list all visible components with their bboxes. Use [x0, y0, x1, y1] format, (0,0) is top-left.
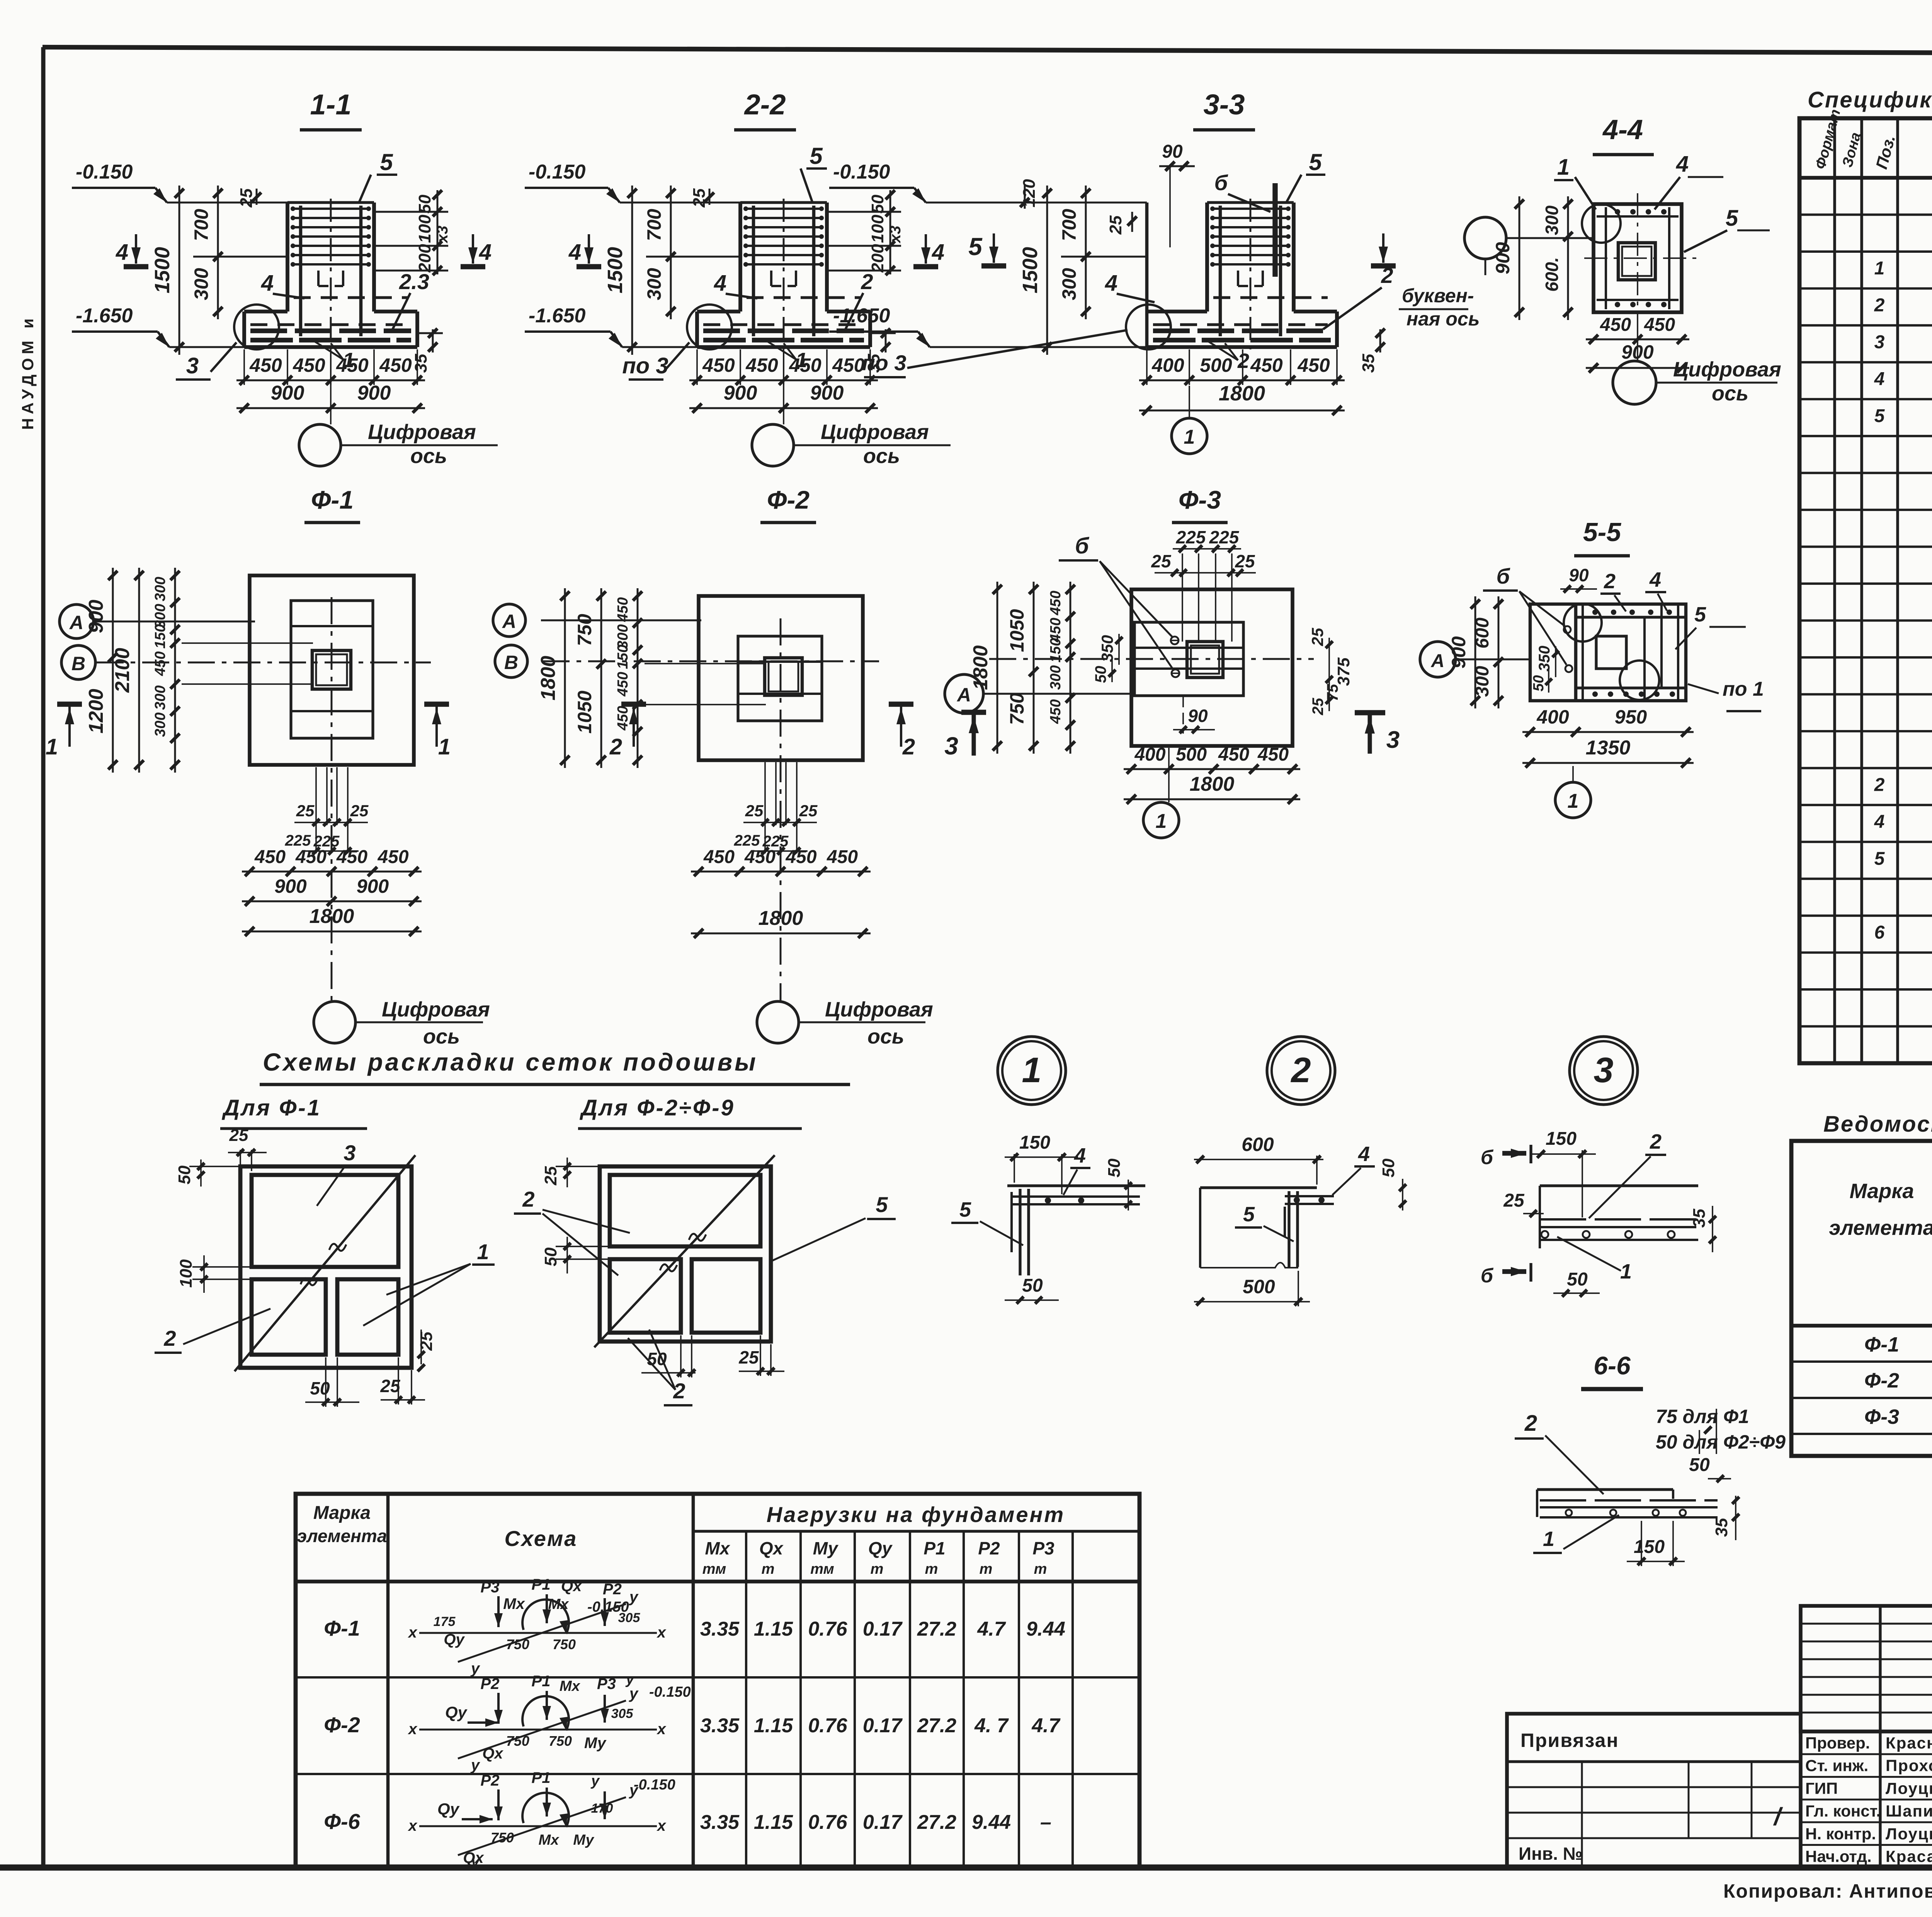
svg-text:450: 450 — [379, 354, 412, 376]
section 1-1 footing outline — [244, 310, 287, 313]
svg-text:Р1: Р1 — [532, 1769, 551, 1786]
svg-text:27.2: 27.2 — [917, 1714, 956, 1737]
svg-text:А: А — [956, 684, 971, 706]
svg-text:1: 1 — [1620, 1260, 1632, 1283]
plan F-3 cut mark 3 right — [1355, 710, 1385, 715]
plan F-1 cut marks 1-1 — [57, 701, 82, 707]
svg-text:4: 4 — [1105, 271, 1117, 296]
mesh scheme 1 (for F-1) — [240, 1166, 412, 1368]
svg-text:Qх: Qх — [482, 1745, 503, 1762]
svg-text:450: 450 — [1257, 744, 1289, 765]
svg-text:Провер.: Провер. — [1805, 1734, 1870, 1752]
plan Ф-3 pedestal step — [1134, 622, 1243, 696]
svg-text:Цифровая: Цифровая — [821, 421, 929, 444]
plan F-2 axis circle A — [493, 604, 526, 637]
plan F-2 chain 1800 — [691, 933, 871, 935]
plan F-1 axes — [97, 662, 431, 664]
svg-text:305: 305 — [618, 1611, 641, 1625]
svg-text:Цифровая: Цифровая — [825, 998, 933, 1021]
svg-text:1500: 1500 — [1019, 247, 1042, 293]
svg-text:900: 900 — [271, 382, 304, 404]
svg-text:900: 900 — [724, 382, 757, 404]
svg-text:3: 3 — [344, 1141, 355, 1165]
svg-text:50: 50 — [1567, 1269, 1588, 1290]
svg-text:Р1: Р1 — [532, 1576, 551, 1593]
svg-text:4: 4 — [261, 271, 274, 296]
svg-text:5: 5 — [876, 1192, 888, 1217]
mesh 2 panel bottom-right — [692, 1259, 760, 1333]
svg-text:750: 750 — [549, 1733, 572, 1749]
svg-text:Р3: Р3 — [481, 1579, 500, 1596]
svg-text:Цифровая: Цифровая — [1673, 358, 1781, 381]
svg-text:25: 25 — [350, 802, 369, 820]
svg-text:50 для Ф2÷Ф9: 50 для Ф2÷Ф9 — [1656, 1431, 1786, 1453]
svg-text:х: х — [656, 1817, 667, 1834]
svg-text:300: 300 — [643, 268, 665, 300]
svg-text:2: 2 — [609, 734, 622, 759]
section 3-3 dashed bar 4 — [1213, 296, 1328, 299]
svg-text:50: 50 — [647, 1349, 667, 1369]
svg-text:В: В — [504, 652, 518, 673]
svg-text:3-3: 3-3 — [1204, 89, 1245, 121]
svg-text:4: 4 — [568, 240, 581, 265]
svg-text:Лоуцкер: Лоуцкер — [1886, 1779, 1932, 1797]
svg-text:–: – — [1040, 1811, 1051, 1834]
svg-text:1: 1 — [438, 734, 451, 759]
svg-text:у: у — [629, 1588, 639, 1605]
svg-text:5: 5 — [1874, 848, 1885, 869]
svg-text:1: 1 — [46, 734, 58, 759]
svg-text:Нагрузки на фундамент: Нагрузки на фундамент — [767, 1502, 1065, 1527]
detail node circle 1 — [998, 1037, 1066, 1105]
section 2-2 dim 35 — [885, 329, 887, 352]
svg-text:5: 5 — [959, 1198, 971, 1221]
svg-text:х: х — [656, 1721, 667, 1738]
svg-text:Для Ф-2÷Ф-9: Для Ф-2÷Ф-9 — [579, 1095, 735, 1120]
svg-text:Р1: Р1 — [923, 1538, 945, 1558]
section 3-3 column rebar — [1211, 208, 1290, 210]
svg-text:Qх: Qх — [463, 1849, 484, 1866]
plan Ф-1 column — [312, 650, 351, 689]
svg-text:350: 350 — [1536, 646, 1553, 672]
svg-text:170: 170 — [591, 1801, 613, 1816]
svg-text:6-6: 6-6 — [1594, 1351, 1631, 1380]
svg-text:Инв. №: Инв. № — [1519, 1844, 1583, 1864]
svg-text:-1.650: -1.650 — [529, 305, 586, 327]
svg-text:450: 450 — [152, 651, 168, 676]
svg-text:375: 375 — [1334, 657, 1353, 686]
steel consumption table — [1791, 1141, 1932, 1456]
plan F-1 chain 900x2 — [242, 901, 422, 902]
svg-text:400: 400 — [1151, 354, 1184, 376]
svg-text:-0.150: -0.150 — [529, 161, 586, 183]
svg-text:4: 4 — [479, 240, 492, 265]
svg-text:25: 25 — [1106, 215, 1125, 235]
svg-text:450: 450 — [785, 847, 816, 867]
svg-text:у: у — [629, 1685, 639, 1702]
plan F-3 left chain small — [1070, 582, 1071, 754]
title block priv box — [1507, 1714, 1801, 1868]
section 1-1 dashed bar 4 — [294, 296, 408, 299]
svg-text:450: 450 — [615, 706, 631, 730]
svg-text:1050: 1050 — [1006, 609, 1028, 652]
svg-text:450: 450 — [1218, 744, 1249, 765]
svg-text:1.15: 1.15 — [754, 1714, 793, 1737]
svg-text:3: 3 — [1386, 727, 1400, 753]
svg-text:2: 2 — [163, 1326, 176, 1350]
svg-text:450: 450 — [1048, 591, 1064, 615]
svg-text:5: 5 — [1243, 1203, 1255, 1226]
svg-text:-1.650: -1.650 — [833, 305, 890, 327]
svg-text:Цифровая: Цифровая — [382, 998, 490, 1021]
svg-text:Qу: Qу — [445, 1703, 468, 1722]
svg-text:90: 90 — [1188, 706, 1208, 726]
svg-text:300: 300 — [1472, 666, 1493, 697]
svg-text:300: 300 — [1048, 665, 1064, 690]
section 4-4 centerlines — [1584, 257, 1697, 259]
svg-text:1: 1 — [1543, 1527, 1554, 1551]
plan F-3 chain 1800 — [1124, 798, 1300, 800]
svg-text:4.7: 4.7 — [1031, 1714, 1060, 1737]
section 1-1 bottom chain 450x4 — [243, 349, 245, 385]
svg-text:90: 90 — [1569, 565, 1589, 585]
section 5-5 bottom chain 400/950 — [1522, 731, 1694, 733]
svg-text:50: 50 — [1092, 666, 1109, 683]
plan F-1 chain 1800 — [242, 931, 422, 933]
svg-text:9.44: 9.44 — [972, 1811, 1011, 1834]
svg-text:ось: ось — [863, 444, 900, 468]
svg-text:б: б — [1481, 1146, 1494, 1169]
svg-text:0.76: 0.76 — [808, 1618, 847, 1640]
svg-text:450: 450 — [1644, 315, 1675, 335]
svg-text:150: 150 — [615, 645, 631, 669]
svg-text:100: 100 — [415, 215, 434, 243]
svg-text:Схемы раскладки сеток подош: Схемы раскладки сеток подошвы — [263, 1048, 758, 1076]
svg-text:500: 500 — [1200, 354, 1232, 376]
section 3-3 dim 1500 — [1046, 186, 1048, 355]
svg-text:300: 300 — [190, 268, 212, 300]
svg-text:Схема: Схема — [505, 1526, 578, 1551]
plan F-3 bottom chain 400/500/450/450 — [1124, 768, 1300, 770]
section 2-2 footing outline — [697, 310, 740, 313]
svg-text:25: 25 — [690, 188, 709, 208]
section 2-2 detail circle — [687, 305, 732, 349]
section 1-1 footing mesh bars — [250, 329, 411, 333]
svg-text:Ведомость расхода стали на: Ведомость расхода стали на элемент, кг — [1823, 1112, 1932, 1137]
svg-text:75 для Ф1: 75 для Ф1 — [1656, 1406, 1749, 1427]
svg-text:750: 750 — [506, 1733, 529, 1749]
detail 2 break line — [1200, 1263, 1298, 1268]
section 2-2 right dims 50/100x3/200 — [889, 190, 891, 274]
section 4-4 detail circle — [1582, 204, 1621, 243]
svg-text:Ф-1: Ф-1 — [324, 1616, 360, 1640]
plan Ф-2 pedestal step — [738, 636, 822, 721]
svg-text:1.15: 1.15 — [754, 1811, 793, 1834]
svg-text:305: 305 — [611, 1706, 634, 1721]
svg-text:1800: 1800 — [759, 907, 803, 930]
svg-text:1: 1 — [1184, 426, 1195, 448]
mesh 1 diagonal — [235, 1155, 415, 1371]
svg-text:1: 1 — [1874, 258, 1885, 279]
svg-text:0.76: 0.76 — [808, 1714, 847, 1737]
svg-text:25: 25 — [738, 1347, 759, 1367]
svg-text:2: 2 — [522, 1187, 534, 1211]
section 1-1 dim 35 — [432, 329, 434, 352]
plan F-3 axis circle A — [945, 674, 983, 713]
detail 3 slab — [1540, 1184, 1698, 1187]
svg-text:25: 25 — [799, 802, 818, 820]
svg-text:ось: ось — [410, 444, 447, 468]
svg-text:35: 35 — [1712, 1518, 1731, 1537]
svg-text:х3: х3 — [887, 226, 904, 244]
svg-text:б: б — [1497, 564, 1510, 588]
section 3-3 centerline — [1250, 199, 1252, 349]
section 3-3 bottom chain 400/500/450/450 — [1146, 349, 1148, 385]
svg-text:25: 25 — [417, 1331, 436, 1351]
section 2-2 centerline — [783, 199, 785, 349]
section 2-2 dim 1500 — [631, 186, 633, 355]
section 3-3 anchor bolt — [1272, 183, 1277, 277]
svg-text:по 3: по 3 — [862, 351, 906, 375]
svg-text:4: 4 — [714, 271, 726, 296]
svg-text:50: 50 — [1689, 1455, 1710, 1475]
svg-text:900: 900 — [85, 600, 107, 633]
svg-text:5: 5 — [380, 149, 393, 175]
section 2-2 dims 700/300 — [670, 186, 672, 319]
mesh 1 panel bottom-left — [252, 1279, 326, 1355]
section 2-2 column outline — [738, 203, 742, 312]
sheet frame border — [43, 47, 1932, 55]
section 4-4 bottom chain 450x2 — [1586, 339, 1689, 340]
section 5-5 anchor bolts — [1564, 626, 1571, 633]
svg-text:-0.150: -0.150 — [76, 161, 133, 183]
svg-text:Р2: Р2 — [603, 1581, 622, 1598]
svg-text:25: 25 — [229, 1126, 248, 1145]
svg-text:Ф-1: Ф-1 — [1864, 1333, 1899, 1356]
section 3-3 axis circle 1 — [1172, 418, 1207, 454]
svg-text:50: 50 — [1379, 1158, 1398, 1177]
svg-text:225: 225 — [1209, 527, 1240, 547]
svg-text:750: 750 — [574, 614, 595, 646]
svg-text:4: 4 — [932, 240, 944, 265]
svg-text:х: х — [408, 1624, 418, 1641]
svg-text:Ф-2: Ф-2 — [767, 485, 810, 514]
section 5-5 detail circles — [1564, 604, 1602, 642]
svg-text:Прохорова: Прохорова — [1886, 1757, 1932, 1775]
svg-text:3: 3 — [1594, 1050, 1613, 1090]
svg-text:300: 300 — [152, 712, 168, 737]
svg-text:300: 300 — [1058, 268, 1080, 300]
svg-text:тм: тм — [810, 1561, 834, 1577]
svg-text:50: 50 — [868, 194, 887, 213]
svg-text:4: 4 — [1676, 152, 1689, 177]
svg-text:1: 1 — [1022, 1050, 1041, 1090]
svg-text:2: 2 — [902, 734, 915, 759]
svg-text:5: 5 — [1726, 206, 1738, 231]
section 1-1 detail circle — [234, 305, 279, 349]
svg-text:150: 150 — [152, 624, 168, 649]
svg-text:/: / — [1773, 1803, 1783, 1830]
svg-text:2: 2 — [1650, 1130, 1662, 1153]
svg-text:5: 5 — [1309, 149, 1322, 175]
svg-text:50: 50 — [1531, 675, 1547, 691]
svg-text:Мх: Мх — [560, 1678, 581, 1694]
loads table — [296, 1494, 1139, 1868]
svg-text:т: т — [762, 1561, 775, 1577]
svg-text:900: 900 — [357, 875, 389, 897]
title block revision table — [1801, 1606, 1932, 1731]
svg-text:3: 3 — [1874, 332, 1885, 352]
svg-text:Р2: Р2 — [978, 1538, 1000, 1558]
svg-text:1: 1 — [1557, 155, 1570, 180]
svg-text:НАУДОМ и: НАУДОМ и — [19, 315, 37, 430]
svg-text:Qх: Qх — [561, 1578, 582, 1595]
plan F-1 digital axis circle — [314, 1001, 355, 1043]
svg-text:25: 25 — [745, 802, 764, 820]
svg-text:1800: 1800 — [1219, 382, 1265, 405]
svg-text:450: 450 — [789, 354, 821, 376]
svg-text:1.15: 1.15 — [754, 1618, 793, 1640]
svg-text:900: 900 — [1448, 636, 1469, 669]
svg-text:Qу: Qу — [444, 1631, 465, 1648]
svg-text:450: 450 — [702, 354, 735, 376]
svg-text:25: 25 — [296, 802, 315, 820]
section 3-3 footing mesh bars — [1153, 329, 1331, 333]
svg-text:А: А — [69, 612, 83, 633]
plan F-1 left chain 2100 — [138, 568, 140, 773]
svg-text:Ф-6: Ф-6 — [324, 1809, 360, 1834]
svg-text:400: 400 — [1134, 744, 1165, 765]
section 2-2 bottom chain 900x2 — [689, 407, 878, 409]
svg-text:450: 450 — [1600, 315, 1631, 335]
svg-text:Шапиро: Шапиро — [1886, 1802, 1932, 1820]
svg-text:Лоуцкер: Лоуцкер — [1886, 1825, 1932, 1843]
section 4-4 rebar dots — [1615, 209, 1620, 215]
plan Ф-2 outer footing — [699, 596, 863, 760]
detail node circle 2 — [1267, 1037, 1335, 1105]
svg-text:0.17: 0.17 — [863, 1618, 903, 1640]
svg-text:Цифровая: Цифровая — [368, 421, 476, 444]
svg-text:900: 900 — [274, 875, 307, 897]
svg-text:А: А — [1431, 651, 1445, 671]
svg-text:1800: 1800 — [310, 905, 354, 928]
svg-text:450: 450 — [827, 847, 858, 867]
svg-text:450: 450 — [744, 847, 776, 867]
section 3-3 dim 35 — [1379, 329, 1381, 352]
plan F-1 axis circle A — [60, 604, 94, 638]
svg-text:4: 4 — [1358, 1142, 1370, 1166]
mesh 2 panel top — [610, 1175, 760, 1246]
svg-text:4.7: 4.7 — [977, 1618, 1006, 1640]
svg-text:2: 2 — [673, 1379, 685, 1403]
svg-text:150: 150 — [1019, 1132, 1050, 1153]
plan F-2 left chain small — [637, 588, 639, 768]
svg-text:1: 1 — [477, 1239, 489, 1264]
plan F-3 axes — [989, 658, 1314, 660]
svg-text:450: 450 — [336, 354, 369, 376]
svg-text:90: 90 — [1162, 141, 1183, 162]
svg-text:Р2: Р2 — [481, 1675, 500, 1692]
svg-text:-0.150: -0.150 — [649, 1684, 691, 1700]
plan F-1 left chain small — [174, 568, 176, 773]
svg-text:2-2: 2-2 — [744, 89, 786, 121]
svg-text:1200: 1200 — [85, 689, 107, 734]
svg-text:450: 450 — [1297, 354, 1330, 376]
svg-text:4: 4 — [1074, 1144, 1086, 1167]
svg-text:2: 2 — [1524, 1411, 1537, 1436]
svg-text:450: 450 — [1048, 699, 1064, 724]
svg-text:50: 50 — [1105, 1158, 1124, 1177]
svg-text:х: х — [408, 1721, 418, 1738]
plan F-2 left chain 1800 — [564, 588, 566, 768]
section 4-4 bottom chain 900 — [1586, 367, 1689, 369]
svg-text:27.2: 27.2 — [917, 1618, 956, 1640]
svg-text:50: 50 — [1022, 1275, 1043, 1296]
svg-text:Мх: Мх — [548, 1596, 570, 1612]
section 5-5 outline — [1530, 604, 1686, 701]
svg-text:Красавин: Красавин — [1886, 1847, 1932, 1866]
svg-text:500: 500 — [1243, 1276, 1275, 1297]
section 2-2 footing mesh bars — [703, 329, 864, 333]
svg-text:3.35: 3.35 — [700, 1811, 740, 1834]
plan F-1 chain 450x4 — [242, 871, 422, 873]
svg-text:т: т — [980, 1561, 993, 1577]
svg-text:700: 700 — [190, 209, 212, 241]
load scheme row 1 — [419, 1632, 657, 1634]
svg-text:по 1: по 1 — [1723, 678, 1764, 700]
section 3-3 detail circle — [1126, 305, 1171, 349]
svg-text:Му: Му — [584, 1735, 607, 1752]
svg-text:4-4: 4-4 — [1602, 114, 1643, 145]
svg-text:25: 25 — [1503, 1190, 1525, 1211]
svg-text:4: 4 — [1874, 369, 1885, 389]
svg-text:600: 600 — [1472, 618, 1493, 649]
plan F-3 axis circle 1 — [1143, 802, 1179, 838]
section 6-6 slab — [1537, 1488, 1673, 1491]
section 2-2 bottom chain 450x4 — [696, 349, 698, 385]
section 5-5 axis circle 1 — [1555, 782, 1591, 818]
svg-text:450: 450 — [615, 597, 631, 622]
svg-text:1500: 1500 — [604, 247, 627, 293]
svg-text:2: 2 — [1874, 295, 1885, 316]
svg-text:175: 175 — [434, 1614, 456, 1629]
load scheme row 2 — [419, 1729, 657, 1731]
section 1-1 centerline — [330, 199, 332, 349]
section 3-3 bottom chain 1800 — [1139, 410, 1345, 412]
svg-text:т: т — [871, 1561, 884, 1577]
svg-text:450: 450 — [1250, 354, 1283, 376]
svg-text:Краснова: Краснова — [1886, 1734, 1932, 1752]
svg-text:0.17: 0.17 — [863, 1714, 903, 1737]
svg-text:2: 2 — [1290, 1050, 1311, 1090]
svg-text:1050: 1050 — [574, 691, 595, 734]
svg-text:Р3: Р3 — [1032, 1538, 1054, 1558]
svg-text:5: 5 — [1874, 406, 1885, 426]
mesh 1 panel top — [252, 1175, 398, 1267]
svg-text:35: 35 — [1359, 354, 1378, 373]
svg-text:1800: 1800 — [969, 645, 992, 690]
plan Ф-3 outer footing — [1131, 589, 1293, 746]
svg-text:200: 200 — [868, 244, 887, 273]
svg-text:600: 600 — [1242, 1134, 1274, 1155]
svg-text:5: 5 — [968, 233, 983, 260]
plan F-2 left chain 750/1050 — [600, 588, 602, 768]
svg-text:50: 50 — [175, 1165, 194, 1184]
section 2-2 digital axis circle — [752, 424, 794, 466]
svg-text:9.44: 9.44 — [1026, 1618, 1065, 1640]
mesh 2 diagonal — [594, 1155, 775, 1347]
plan F-1 left chain 900/1200 — [112, 568, 114, 773]
